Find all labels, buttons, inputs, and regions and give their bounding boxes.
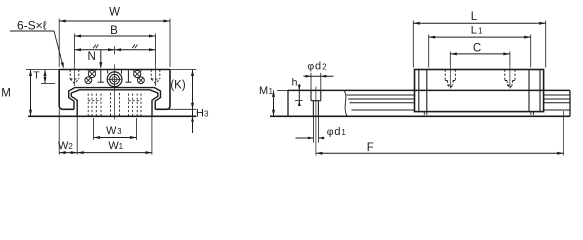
hidden boss edges beside nipple [98, 70, 132, 82]
svg-text:2: 2 [322, 62, 327, 71]
seal lip left (side view) [424, 112, 427, 115]
section break line on rail [344, 90, 347, 116]
svg-text:W: W [109, 7, 120, 19]
label 6-S×ℓ with leader [10, 18, 64, 69]
rail right end face [569, 90, 571, 116]
block bolt hole S left (side view) [445, 66, 455, 89]
rail side view top edge [288, 89, 570, 91]
LM block outline (side view) [415, 70, 544, 112]
svg-text:L: L [471, 11, 478, 23]
svg-text:6-S×ℓ: 6-S×ℓ [17, 18, 47, 32]
svg-text:C: C [473, 42, 481, 54]
svg-text:B: B [110, 25, 118, 37]
dimension phi-d1 [296, 116, 347, 142]
equal-spacing dimension B/2 [75, 45, 156, 52]
dimension W2 [58, 109, 77, 154]
svg-text:L: L [471, 25, 477, 37]
mounting bolt hole S right (hidden) [151, 64, 160, 86]
svg-text:h: h [292, 77, 298, 89]
end-seal screw left upper [88, 70, 95, 78]
rail groove lines (right of block) [544, 95, 570, 110]
svg-text:d: d [315, 60, 321, 72]
svg-text:3: 3 [204, 110, 209, 119]
dimension (K) [155, 70, 196, 134]
end plate lines right [529, 70, 540, 112]
dimension N [88, 50, 103, 69]
dimension B [75, 25, 156, 64]
rail groove lines (left of block) [347, 95, 415, 110]
end-seal screw left lower [85, 77, 92, 84]
svg-text:φ: φ [327, 126, 334, 138]
dimension L1 [429, 25, 531, 68]
rail cross-section outline [71, 90, 158, 117]
svg-text:H: H [196, 108, 204, 120]
end seal inner contour (follows rail profile) [69, 88, 161, 110]
svg-text:1: 1 [478, 27, 483, 36]
svg-text:3: 3 [117, 127, 122, 136]
svg-text:F: F [367, 142, 374, 154]
dimension L [413, 11, 545, 68]
hidden raceway lines left [88, 94, 101, 116]
dimension T [33, 70, 55, 84]
dimension M [1, 70, 59, 117]
hidden raceway lines right [128, 94, 141, 116]
svg-text:W: W [58, 140, 69, 152]
dimension H3 [191, 108, 209, 122]
svg-text:2: 2 [68, 142, 73, 151]
svg-text:(K): (K) [170, 80, 186, 92]
vertical center line (end view) [114, 46, 116, 120]
svg-text:N: N [88, 51, 96, 63]
dimension M1 [259, 85, 291, 116]
rail bolt hole (hidden, end view) [111, 93, 120, 116]
svg-text:1: 1 [341, 128, 346, 137]
dimension h [292, 77, 303, 107]
next rail hole center line [563, 111, 565, 156]
svg-text:d: d [334, 126, 340, 138]
rail left end face [287, 90, 289, 116]
end plate lines left [419, 70, 427, 112]
svg-text:T: T [33, 70, 40, 82]
seal lip right (side view) [531, 112, 534, 115]
svg-text:W: W [106, 125, 117, 137]
svg-text:φ: φ [307, 60, 314, 72]
rail side view bottom edge [270, 115, 570, 117]
svg-text:1: 1 [119, 142, 124, 151]
dimension C [450, 42, 510, 65]
dimension W3 [94, 118, 137, 140]
LM block outline (end view) [59, 70, 170, 110]
end-seal screw right lower [138, 77, 145, 84]
mounting bolt hole S left (hidden) [70, 64, 79, 86]
block bolt hole S right (side view) [505, 66, 515, 89]
dimension F [316, 142, 564, 155]
rail mounting surface line [28, 115, 196, 117]
grease nipple (front view) [107, 70, 122, 87]
dimension phi-d2 [303, 60, 333, 90]
end-seal screw right upper [134, 70, 141, 78]
rail counterbore (section) [311, 90, 321, 116]
dimension W [59, 7, 170, 68]
rail hole center line [315, 87, 317, 156]
svg-text:M: M [1, 88, 11, 100]
svg-text:M: M [259, 85, 268, 97]
dimension W1 [77, 116, 152, 155]
